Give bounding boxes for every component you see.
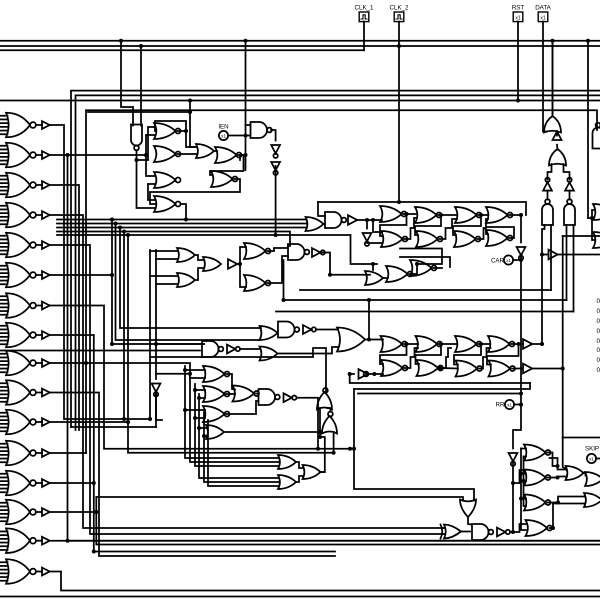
junction at (542,344) [540,342,544,346]
wire L14 input stub 5 [0,517,8,519]
wire L15 input stub 6 [0,549,8,551]
wire L11 input stub 4 [0,423,8,425]
wire U64 out [461,531,470,533]
wire L12 input stub 6 [0,461,8,463]
wire bus2 line3 [0,100,600,102]
wire cross E6a [380,344,407,364]
nor gate U7 [215,147,242,163]
wire U35 in2 [156,283,177,285]
wire L16 input stub 3 [0,569,8,571]
buffer U26 (up) [553,131,562,140]
buffer L9 [42,359,50,367]
wire E7 h3 [195,389,205,391]
wire L4 input stub 4 [0,216,8,218]
wire E5 line4 [0,350,200,352]
wire E7 riser 2 [189,374,191,378]
wire E7 riser 5 [204,412,279,482]
nor gate U78 [203,406,230,422]
wire U33 in [542,254,547,256]
wire inv drop1 [366,220,368,229]
svg-text:0: 0 [597,338,600,345]
wire L2 input stub 1 [0,145,8,147]
junction at (557.5,466) [556,464,560,468]
wire U50 out [277,347,338,354]
junction at (350,448.7) [348,447,352,451]
wire L1 input stub 6 [0,133,8,135]
wire RST drop [517,22,519,101]
junction at (481,215) [479,213,483,217]
wire E7 riser 1 [185,366,279,458]
junction at (124,419) [122,417,126,421]
junction at (373,220) [371,218,375,222]
junction at (417,264) [415,262,419,266]
wire L9 out [50,363,279,462]
wire U44 out [434,267,443,269]
nor gate U19 [416,231,443,247]
wire L11 input stub 6 [0,430,8,432]
wire U39 out [268,256,289,283]
wire tap m2 [116,224,261,341]
wire L11 input stub 3 [0,419,8,421]
svg-text:x1: x1 [507,403,512,408]
wire E1 cross [155,121,186,131]
junction at (150,419) [148,417,152,421]
wire U35 in [150,275,177,277]
wire U34 out [195,255,204,260]
wire U69 link [558,477,567,478]
wire drop D [552,41,554,116]
wire U27 in L [548,164,552,180]
junction at (195,390) [193,388,197,392]
wire tap m1 [112,220,204,345]
wire skip in v1 [521,448,526,450]
wire L3 input stub 6 [0,193,8,195]
svg-text:CLK_2: CLK_2 [390,5,409,12]
wire U61 out [533,343,543,345]
wire L11 input stub 2 [0,415,8,417]
nor gate L5 [6,233,42,258]
buffer L10 [42,389,50,397]
wire L8 input stub 6 [0,343,8,345]
wire bus2 line2 [76,95,600,430]
wire L15 input stub 4 [0,542,8,544]
junction at (320,437) [318,435,322,439]
nor gate L14 [6,500,42,525]
nor gate L12 [6,441,42,466]
wire latch cross 4 [486,227,514,238]
wire U63 out [468,517,471,525]
junction at (275.6,235) [274,233,278,237]
svg-text:SKIP: SKIP [585,446,599,453]
inverter bubble chain2 [328,412,333,417]
nand gate U48 [202,341,223,357]
buffer U56 [359,369,368,379]
buffer U62 [523,364,532,374]
wire U5 out [181,204,187,220]
wire CAR link [520,256,522,261]
wire U20 out [479,214,489,216]
or gate U42 [365,271,383,285]
wire U8 out [150,179,240,204]
wire U22 out [510,214,522,216]
wire L10 out [50,393,335,557]
xor gate U35 [177,273,195,287]
wire U30 in L [542,225,545,344]
junction at (481,344) [479,342,483,346]
wire mid bus 3 [57,227,306,229]
wire U89 in R [333,432,335,453]
wire E7 riser 6 [208,420,279,486]
inverter bubble chain [323,388,328,393]
wire L6 input stub 6 [0,283,8,285]
wire E7 h6 [195,417,205,419]
wire L6 input stub 4 [0,276,8,278]
wire U12 out [323,223,325,225]
wire L7 input stub 2 [0,299,8,301]
buffer L13 [42,479,50,487]
or gate U63 (down) [460,500,476,518]
junction at (120,227.5) [118,226,122,230]
wire skip box top [563,437,600,439]
buffer L4 [42,211,50,219]
nor gate L11 [6,410,42,435]
wire DATA drop [543,22,547,132]
nor gate U4 [154,172,181,188]
wire U35 out [195,268,204,280]
junction at (121,40.8) [119,39,123,43]
wire E1 feed4 [148,183,155,185]
wire L10 input stub 5 [0,397,8,399]
wire L10 input stub 2 [0,386,8,388]
wire U51 out [365,339,383,341]
junction at (204,436) [202,434,206,438]
wire U9 in1 [246,124,251,126]
junction at (146,155) [144,153,148,157]
output RR [505,400,514,409]
nor gate U16 [380,206,407,222]
buffer L8 [42,331,50,339]
or gate U85 [303,465,321,479]
wire E6 box1 [350,374,530,383]
junction at (128,422) [126,420,130,424]
wire tap m4 [123,232,125,420]
nor gate L16 [6,559,42,584]
wire skip m6 [521,498,526,500]
wire CAR stub [513,259,521,261]
wire CLK_1 drop [363,22,365,51]
nor gate U39 [244,275,271,291]
wire U55 out2 [440,367,458,370]
wire edge latch 2 [592,218,595,240]
junction at (333.6,452.7) [332,451,336,455]
junction at (96.3,512) [94,510,98,514]
wire L1 out [50,125,150,419]
xor gate U34 [177,248,195,262]
wire E1 feed5 [148,184,155,200]
junction at (552.5,40.8) [551,39,555,43]
wire U56 in [350,373,354,375]
wire U60 out [512,368,523,370]
inverter U82 [284,393,297,402]
wire L10 input stub 6 [0,401,8,403]
wire U45 in1 [260,327,261,329]
wire L12 input stub 5 [0,458,8,460]
wire L5 input stub 6 [0,253,8,255]
wire trio riser [320,437,325,472]
junction at (374.4,374) [372,372,376,376]
wire L12 out [50,452,86,454]
nor gate L15 [6,528,42,553]
nor gate L8 [6,323,42,348]
svg-text:DATA: DATA [535,5,551,12]
wire L3 out [50,185,79,430]
wire bus2 line4 [86,110,597,453]
junction at (112,344) [110,342,114,346]
wire U2 out [178,131,197,147]
wire L2 out [50,155,600,541]
junction at (245.5,40.8) [244,39,248,43]
wire E7 riser 4 [199,394,279,478]
buffer L15 [42,537,50,545]
junction at (369,300) [367,298,371,302]
wire U27 out [556,145,559,150]
wire E6 box3 [358,393,521,395]
wire U77 out [227,393,236,395]
port RST [513,12,523,22]
wire E7 h2 [190,377,205,379]
wire U14 out [358,219,383,221]
nor gate U21 [454,231,481,247]
svg-text:x1: x1 [221,134,226,139]
wire box mid2 [284,299,567,301]
nor gate U8 [211,171,238,187]
nand gate U31 (up) [564,199,575,225]
wire L2 input stub 6 [0,163,8,165]
wire bottom line2 [96,497,600,545]
wire U26 link [556,131,558,136]
wire E7 riser 3 [195,384,279,466]
wire U51 riser [368,300,370,340]
wire bus2 line5 [88,111,190,113]
junction at (518,100.5) [516,99,520,103]
wire E6 drop [354,389,474,501]
wire L6 input stub 3 [0,272,8,274]
nor gate U54 [381,360,408,376]
junction at (245.5,155) [244,153,248,157]
wire U34 in2 [156,258,177,260]
svg-text:0: 0 [597,367,600,374]
nor gate U57 [455,336,482,352]
wire E2 drop [283,260,285,300]
wire U76 out [227,374,236,390]
wire skip in m2 [524,456,527,458]
svg-text:01: 01 [597,347,600,354]
wire cross RRb [487,344,519,365]
junction at (141,46) [139,44,143,48]
nor gate L3 [6,173,42,198]
nor gate L4 [6,203,42,228]
wire E7 left line2 [71,426,156,428]
input IEN [219,131,228,140]
wire L7 input stub 3 [0,303,8,305]
wire CAR chain [520,215,522,243]
wire E5 staircase [150,348,326,388]
nor gate U58 [488,336,515,352]
wire IEN out [228,135,250,137]
junction at (245.5,135.5) [244,134,248,138]
wire U66 out [510,531,513,533]
wire drop A [121,41,133,126]
wire cluster box top [318,202,526,215]
wire skip fb [550,458,558,466]
nor gate U2 [154,123,181,139]
junction at (185,370) [183,368,187,372]
wire U56 out [368,373,383,375]
wire bottom mid1 [68,540,600,542]
wire L6 input stub 2 [0,268,8,270]
wire bottom rail [0,596,600,598]
wire edge latch 1 [588,210,595,218]
buffer L16 [42,568,50,576]
wire U18 out [439,214,458,216]
nand gate U13 [325,212,346,228]
wire skip feed [96,497,463,501]
wire L6 input stub 1 [0,265,8,267]
wire right riser [562,236,564,438]
wire L7 out [50,306,354,449]
nand gate U9 [251,122,272,138]
wire box mid1 [300,289,551,291]
junction at (186,131) [184,129,188,133]
wire L16 input stub 5 [0,576,8,578]
wire U75 out [156,392,162,421]
junction at (513,532) [511,530,515,534]
wire U84 out [296,476,304,482]
wire L16 input stub 2 [0,565,8,567]
junction at (330,274.7) [328,273,332,277]
wire L1 input stub 3 [0,122,8,124]
wire L3 input stub 3 [0,182,8,184]
buffer L11 [42,418,50,426]
wire L16 out [50,572,600,591]
wire latch cross 1 [380,214,407,236]
wire L10 input stub 1 [0,382,8,384]
buffer L2 [42,151,50,159]
wire bus2 line1 [71,91,600,427]
wire L4 input stub 6 [0,223,8,225]
inverter U29 (up) [565,178,574,191]
wire top bus 3 [0,49,364,51]
or gate U36 [203,257,221,271]
wire U15 out [367,242,382,244]
output SKIP [587,454,596,463]
junction at (190,373.7) [188,372,192,376]
nor gate U44 [410,260,437,276]
svg-text:x1: x1 [589,457,594,462]
nor gate U59 [456,361,483,377]
junction at (349.7,374) [348,372,352,376]
wire U59 out [479,348,491,369]
junction at (185,410) [183,408,187,412]
wire L10 input stub 3 [0,390,8,392]
wire U54 out [405,348,419,368]
wire L15 input stub 3 [0,538,8,540]
port CLK_2 [394,12,404,22]
wire U82 out [297,398,319,449]
wire L11 input stub 1 [0,412,8,414]
wire U42 in top [372,264,374,270]
wire U64 in1 [443,527,444,529]
nor gate U55 [417,360,444,376]
junction at (557.5,477.5) [556,476,560,480]
wire L10 input stub 4 [0,393,8,395]
buffer L5 [42,241,50,249]
wire U69 out [548,477,558,479]
wire L15 out [50,540,68,542]
buffer L6 [42,271,50,279]
wire E7 h5 [185,409,205,411]
buffer L1 [42,121,50,129]
wire U80 out [256,393,259,395]
or gate U74 [584,493,600,507]
wire mid bus 4 [57,232,290,247]
junction at (240,264) [238,262,242,266]
svg-text:0: 0 [597,308,600,315]
buffer U33 [549,250,558,260]
nand gate U32 (up, edge) [593,123,600,149]
wire E7 h8 [204,435,206,437]
junction at (521,473.5) [519,472,523,476]
wire L1 input stub 2 [0,118,8,120]
nor gate U43 [386,266,413,282]
wire U6 out [214,150,218,152]
wire U53 out [439,343,457,345]
svg-text:0: 0 [597,328,600,335]
junction at (112,275) [110,273,114,277]
wire S stub1 [513,470,526,483]
junction at (195,418) [193,416,197,420]
wire mid bus 2 [57,223,306,225]
wire L7 input stub 1 [0,295,8,297]
wire E1 feed1 [148,127,155,160]
wire U1 out [137,151,156,209]
nor gate U18 [415,207,442,223]
buffer L3 [42,181,50,189]
wire chain mid [327,408,330,412]
wire L14 input stub 3 [0,509,8,511]
wire U31 in L [566,225,568,300]
wire L15 input stub 5 [0,545,8,547]
wire U88 in L [319,408,321,437]
nor gate U38 [244,243,271,259]
wire skip m5 [521,473,526,475]
wire L3 input stub 1 [0,175,8,177]
junction at (588,40.8) [586,39,590,43]
wire CLK_2 drop [398,22,400,202]
nand gate U65 [472,524,493,540]
wire E7 h7 [199,427,206,429]
junction at (190,100.5) [188,99,192,103]
wire L3 input stub 2 [0,178,8,180]
inverter U67 (down) [509,453,518,466]
wire tap m3 [120,228,260,329]
nor gate U70 [524,495,551,511]
wire U41 out [321,253,370,275]
wire U83 out [296,462,304,468]
inverter U47 [303,325,316,334]
junction at (318,448.7) [316,447,320,451]
junction at (86,363) [84,361,88,365]
